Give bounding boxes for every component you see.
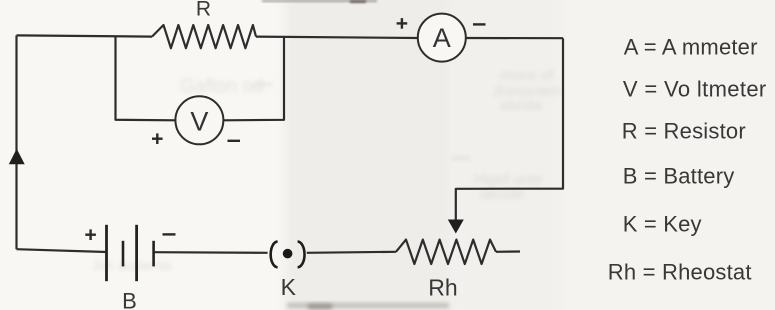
svg-text:V = Vo ltmeter: V = Vo ltmeter	[623, 77, 767, 102]
svg-text:abrida: abrida	[500, 97, 542, 114]
svg-text:A = A mmeter: A = A mmeter	[624, 35, 758, 60]
wire: voltmeter branch right leg	[223, 37, 284, 121]
wire: left vertical side	[15, 35, 17, 249]
scan artifacts: bleed-through text	[92, 67, 563, 273]
svg-text:R = Resistor: R = Resistor	[622, 119, 746, 144]
svg-text:B: B	[122, 289, 137, 310]
wire: key K to rheostat Rh	[307, 252, 396, 253]
scan artifacts: edge smears	[262, 0, 377, 2]
ammeter plus terminal label	[397, 18, 408, 29]
wire: ammeter A to top-right corner	[466, 37, 563, 39]
wire: top bus, left corner to resistor R	[17, 35, 153, 36]
wire: rheostat Rh right lead	[496, 250, 520, 253]
svg-text:V: V	[190, 107, 208, 137]
battery B	[107, 225, 154, 281]
ammeter A	[418, 14, 466, 62]
voltmeter plus terminal label	[152, 133, 163, 144]
svg-text:K = Key: K = Key	[623, 212, 702, 237]
svg-text:Gafton od: Gafton od	[180, 76, 263, 97]
resistor R	[152, 25, 256, 48]
svg-text:Jim austenta: Jim austenta	[92, 257, 172, 273]
battery minus terminal label	[163, 233, 176, 235]
voltmeter minus terminal label	[228, 140, 241, 142]
wire: battery B to key K	[154, 251, 268, 254]
rheostat Rh	[396, 240, 496, 264]
battery plus terminal label	[85, 229, 96, 240]
svg-text:K: K	[281, 274, 297, 300]
rheostat slider arrow	[448, 220, 464, 234]
wire: voltmeter branch left leg	[116, 36, 176, 120]
key K (plug key symbol)	[271, 242, 305, 268]
svg-text:Rh: Rh	[428, 275, 457, 301]
svg-text:B = Battery: B = Battery	[623, 164, 735, 189]
current direction arrow on left wire	[9, 149, 25, 164]
ammeter minus terminal label	[473, 23, 486, 25]
svg-text:mons of: mons of	[500, 67, 554, 84]
svg-text:R: R	[196, 0, 211, 21]
wire: right vertical down to rheostat slider lead	[456, 38, 563, 221]
wire: resistor R to ammeter A	[256, 37, 418, 38]
wire: bottom bus, left corner to battery B	[17, 249, 107, 252]
svg-text:Rh = Rheostat: Rh = Rheostat	[608, 260, 752, 285]
voltmeter V	[175, 96, 223, 144]
svg-text:A: A	[433, 23, 451, 53]
